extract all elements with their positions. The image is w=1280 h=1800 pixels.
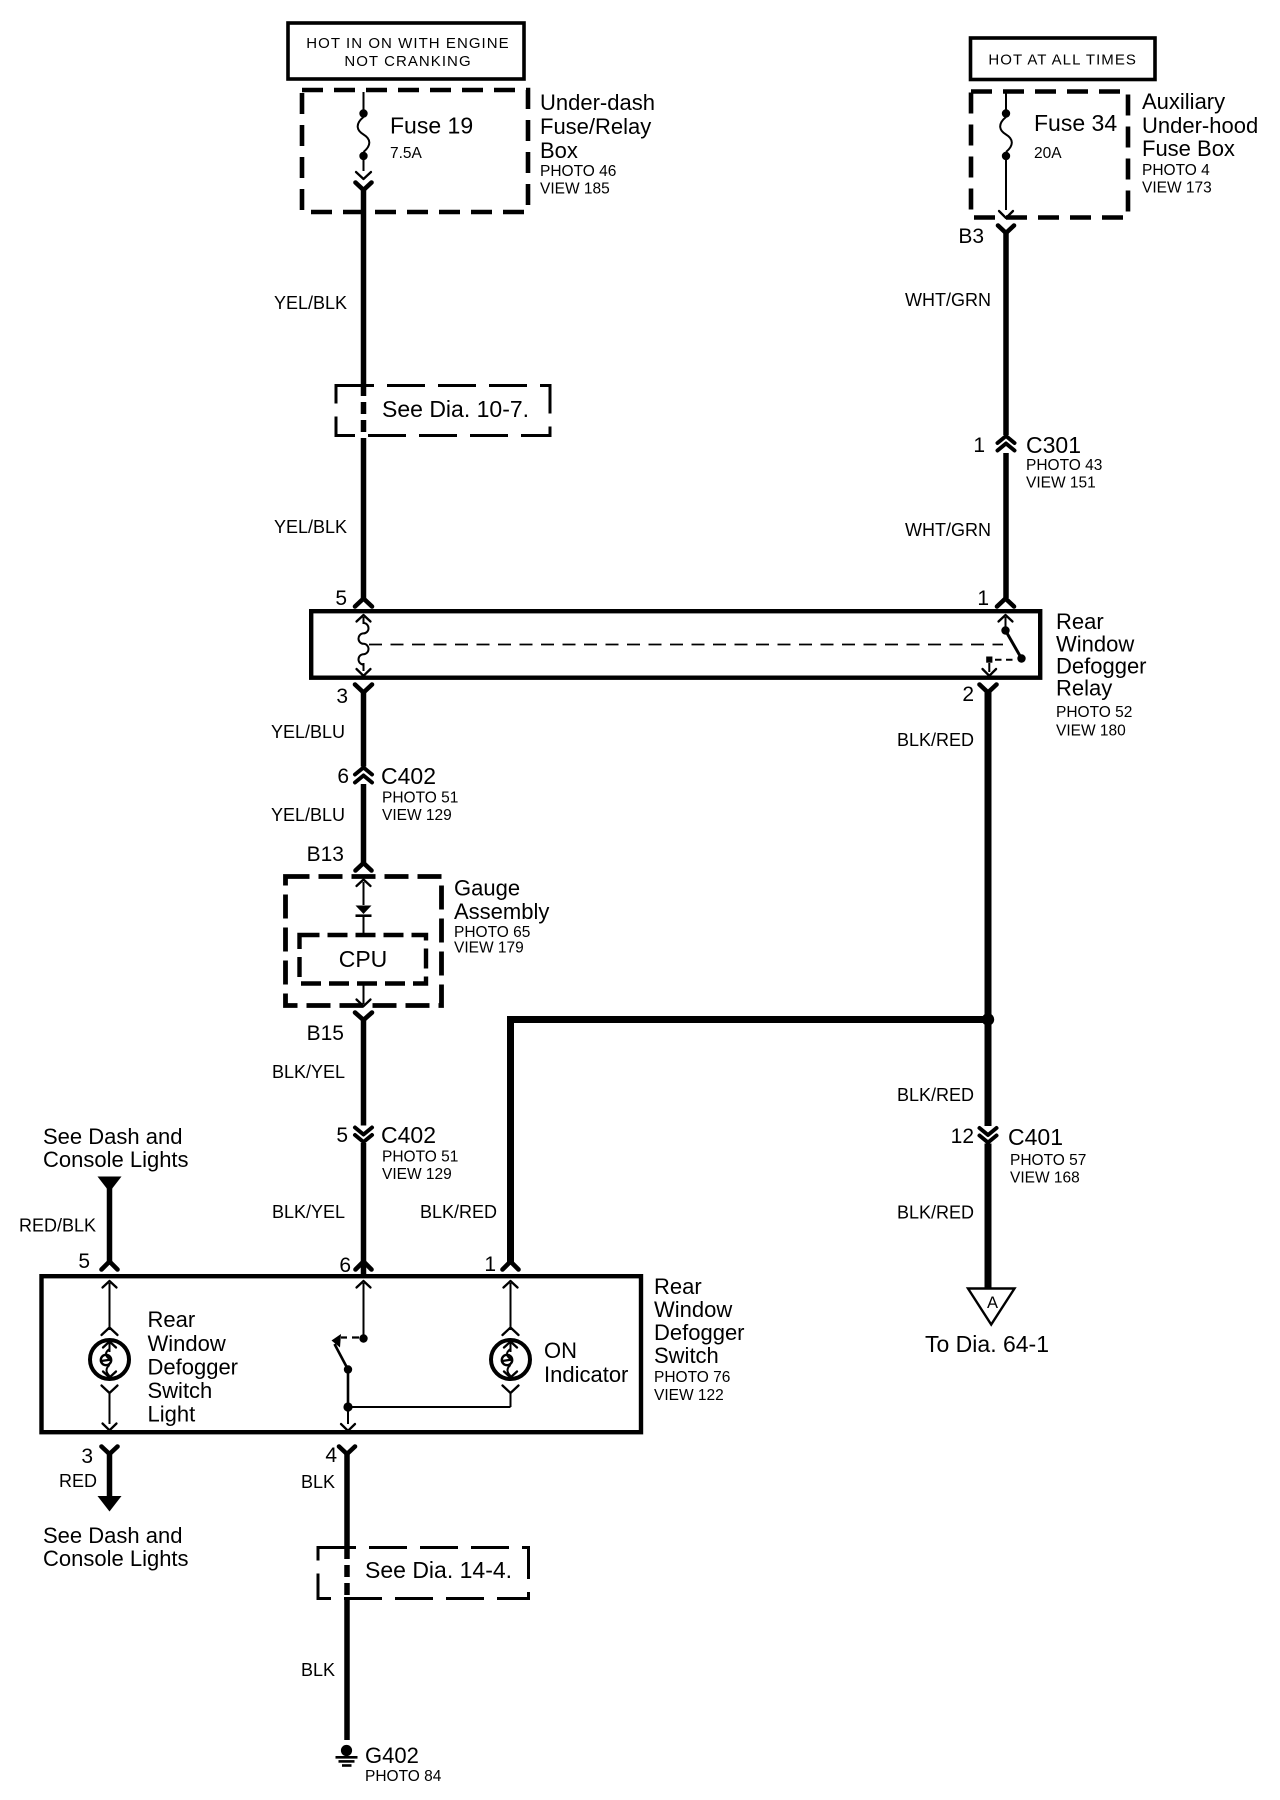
svg-text:PHOTO 57: PHOTO 57 xyxy=(1010,1152,1086,1169)
wire YEL/BLK (See Dia. 10-7. to relay pin 5) xyxy=(361,440,367,598)
svg-text:5: 5 xyxy=(335,587,347,610)
wire label WHT/GRN (upper) xyxy=(905,290,991,310)
relay switch contacts xyxy=(983,615,1026,676)
svg-text:See Dash and: See Dash and xyxy=(43,1523,182,1548)
svg-text:Indicator: Indicator xyxy=(544,1362,628,1387)
pin 5 connector flare (switch) xyxy=(102,1262,118,1270)
CPU box (dashed) xyxy=(300,935,427,984)
wire BLK/RED (relay pin 2 to junction) xyxy=(985,690,992,1020)
svg-text:YEL/BLU: YEL/BLU xyxy=(271,722,345,742)
svg-text:BLK/YEL: BLK/YEL xyxy=(272,1202,345,1222)
reference box: See Dia. 10-7. xyxy=(336,386,550,436)
switch light lamp L1 (Rear Window Defogger Switch Light) xyxy=(90,1281,129,1430)
svg-text:Window: Window xyxy=(654,1297,732,1322)
wire label BLK/RED (right lower) xyxy=(897,1203,974,1223)
power source label: HOT AT ALL TIMES xyxy=(971,38,1156,80)
wire label BLK (lower) xyxy=(301,1660,335,1680)
gauge assembly box (dashed enclosure) xyxy=(286,877,442,1006)
reference: See Dash and Console Lights (lower) xyxy=(43,1523,189,1571)
connector C401 (pin 12) xyxy=(951,1124,1087,1187)
svg-text:YEL/BLU: YEL/BLU xyxy=(271,805,345,825)
svg-text:BLK: BLK xyxy=(301,1660,335,1680)
svg-text:Rear: Rear xyxy=(1056,609,1104,634)
pin 5 label (switch) xyxy=(78,1250,90,1273)
rear window defogger switch box xyxy=(42,1276,642,1432)
wire label BLK (upper) xyxy=(301,1472,335,1492)
svg-text:Light: Light xyxy=(148,1402,196,1427)
pin 6 label (switch) xyxy=(339,1254,351,1277)
wire label YEL/BLU (lower) xyxy=(271,805,345,825)
svg-text:HOT AT ALL TIMES: HOT AT ALL TIMES xyxy=(988,52,1137,69)
svg-text:BLK/RED: BLK/RED xyxy=(897,1203,974,1223)
wire label YEL/BLK (upper) xyxy=(274,293,347,313)
wire label WHT/GRN (lower) xyxy=(905,520,991,540)
fuse 19 value labels xyxy=(390,113,473,163)
svg-text:6: 6 xyxy=(339,1254,351,1277)
svg-text:C402: C402 xyxy=(381,763,436,789)
svg-text:7.5A: 7.5A xyxy=(390,145,423,162)
connector flare B13 xyxy=(356,863,372,871)
pin 2 label (relay) xyxy=(962,683,974,706)
svg-text:Console Lights: Console Lights xyxy=(43,1546,189,1571)
svg-text:Defogger: Defogger xyxy=(654,1320,745,1345)
node B15 label xyxy=(307,1022,344,1045)
wire label RED/BLK xyxy=(19,1216,96,1236)
pin 4 label (switch) xyxy=(325,1444,337,1467)
svg-text:Auxiliary: Auxiliary xyxy=(1142,89,1225,114)
pin 1 label (switch) xyxy=(484,1253,496,1276)
svg-text:Window: Window xyxy=(148,1331,226,1356)
auxiliary under-hood fuse box (dashed enclosure) xyxy=(971,92,1128,218)
switch S1 (defogger switch contacts) xyxy=(332,1281,371,1431)
wire BLK (See Dia. 14-4. to ground G402) xyxy=(344,1600,350,1740)
wire label YEL/BLK (lower) xyxy=(274,517,347,537)
wire BLK/YEL (C402 to switch pin 6) xyxy=(361,1143,367,1276)
wire RED (switch pin 3 to dash/console lights) xyxy=(98,1452,122,1512)
svg-text:VIEW 179: VIEW 179 xyxy=(454,940,524,957)
svg-text:VIEW 122: VIEW 122 xyxy=(654,1387,724,1404)
svg-text:Gauge: Gauge xyxy=(454,876,520,901)
wire (CPU to B15) xyxy=(357,984,371,1006)
svg-text:Console Lights: Console Lights xyxy=(43,1147,189,1172)
switch box inner caption xyxy=(148,1307,239,1427)
svg-text:4: 4 xyxy=(325,1444,337,1467)
svg-text:VIEW 180: VIEW 180 xyxy=(1056,723,1126,740)
svg-text:PHOTO 43: PHOTO 43 xyxy=(1026,457,1102,474)
svg-text:Switch: Switch xyxy=(654,1343,719,1368)
svg-text:ON: ON xyxy=(544,1338,577,1363)
wire WHT/GRN (C301 to relay pin 1) xyxy=(1003,453,1009,598)
svg-text:Fuse Box: Fuse Box xyxy=(1142,136,1235,161)
svg-text:CPU: CPU xyxy=(339,946,388,972)
wire (switch junction to ON indicator) xyxy=(348,1406,511,1408)
svg-text:5: 5 xyxy=(336,1124,348,1147)
pin 5 label (relay) xyxy=(335,587,347,610)
svg-text:Relay: Relay xyxy=(1056,676,1112,701)
svg-text:VIEW 151: VIEW 151 xyxy=(1026,475,1096,492)
svg-text:VIEW 129: VIEW 129 xyxy=(382,1166,452,1183)
svg-text:3: 3 xyxy=(336,685,348,708)
wire BLK/RED (junction to C401) xyxy=(985,1020,992,1127)
svg-text:Box: Box xyxy=(540,138,578,163)
svg-text:B15: B15 xyxy=(307,1022,344,1045)
svg-text:20A: 20A xyxy=(1034,145,1062,162)
svg-text:PHOTO 51: PHOTO 51 xyxy=(382,1149,458,1166)
pin 2 connector cup xyxy=(980,685,997,693)
junction node (BLK/RED splice) xyxy=(982,1013,994,1025)
svg-text:WHT/GRN: WHT/GRN xyxy=(905,290,991,310)
svg-text:A: A xyxy=(987,1294,998,1312)
fuse F19 symbol xyxy=(356,92,371,179)
svg-text:VIEW 129: VIEW 129 xyxy=(382,807,452,824)
svg-text:See Dia. 10-7.: See Dia. 10-7. xyxy=(382,396,529,422)
relay coil xyxy=(357,615,371,676)
pin 1 connector flare xyxy=(997,599,1014,607)
wire RED/BLK (to switch pin 5) xyxy=(107,1188,113,1262)
svg-text:BLK/RED: BLK/RED xyxy=(897,1085,974,1105)
gauge assembly caption xyxy=(454,876,549,957)
fuse 34 value labels xyxy=(1034,110,1117,162)
ON indicator caption xyxy=(544,1338,628,1387)
svg-text:3: 3 xyxy=(81,1445,93,1468)
pin 5 connector flare xyxy=(355,599,372,607)
wire WHT/GRN (B3 to C301) xyxy=(1003,231,1009,435)
pin 6 connector flare (switch) xyxy=(356,1262,372,1270)
wire label YEL/BLU (upper) xyxy=(271,722,345,742)
fuse F34 symbol xyxy=(999,94,1013,219)
wire YEL/BLK (fuse 19 to See Dia. 10-7.) xyxy=(361,188,367,384)
svg-text:VIEW 173: VIEW 173 xyxy=(1142,180,1212,197)
svg-text:Assembly: Assembly xyxy=(454,899,549,924)
svg-text:Fuse/Relay: Fuse/Relay xyxy=(540,114,651,139)
svg-text:WHT/GRN: WHT/GRN xyxy=(905,520,991,540)
connector C402 (pin 6) xyxy=(337,763,458,824)
wire (dashed through See Dia. 14-4. box) xyxy=(344,1547,350,1600)
svg-text:PHOTO 76: PHOTO 76 xyxy=(654,1369,730,1386)
relay caption xyxy=(1056,609,1147,740)
svg-text:PHOTO 4: PHOTO 4 xyxy=(1142,162,1210,179)
auxiliary fuse box caption xyxy=(1142,89,1258,197)
ON indicator lamp L2 xyxy=(491,1281,530,1407)
svg-text:YEL/BLK: YEL/BLK xyxy=(274,293,347,313)
svg-text:BLK/RED: BLK/RED xyxy=(420,1202,497,1222)
svg-text:12: 12 xyxy=(951,1125,974,1148)
wire label BLK/RED (right middle) xyxy=(897,1085,974,1105)
svg-text:PHOTO 84: PHOTO 84 xyxy=(365,1768,442,1785)
pin 1 label (relay) xyxy=(977,587,989,610)
pin 3 connector cup xyxy=(355,685,372,693)
wire YEL/BLU (relay pin 3 to C402) xyxy=(361,690,367,767)
ground G402 xyxy=(336,1743,442,1785)
svg-text:See Dia. 14-4.: See Dia. 14-4. xyxy=(365,1557,512,1583)
svg-text:To Dia. 64-1: To Dia. 64-1 xyxy=(925,1331,1049,1357)
svg-text:VIEW 168: VIEW 168 xyxy=(1010,1170,1080,1187)
wire label RED xyxy=(59,1471,97,1491)
svg-text:Rear: Rear xyxy=(148,1307,196,1332)
power source label: HOT IN ON WITH ENGINE NOT CRANKING xyxy=(288,23,524,79)
diode D (gauge assembly internal) xyxy=(356,880,372,934)
svg-text:VIEW 185: VIEW 185 xyxy=(540,181,610,198)
wire label BLK/YEL (upper) xyxy=(272,1062,345,1082)
svg-text:PHOTO 46: PHOTO 46 xyxy=(540,163,616,180)
svg-text:RED/BLK: RED/BLK xyxy=(19,1216,96,1236)
pin 3 label (relay) xyxy=(336,685,348,708)
svg-text:Rear: Rear xyxy=(654,1274,702,1299)
svg-text:HOT IN ON WITH ENGINE: HOT IN ON WITH ENGINE xyxy=(306,35,509,52)
pin 4 connector cup (switch) xyxy=(339,1447,355,1455)
pin 3 label (switch) xyxy=(81,1445,93,1468)
svg-text:See Dash and: See Dash and xyxy=(43,1124,182,1149)
arrow from dash/console lights feed xyxy=(98,1177,122,1193)
connector C301 (pin 1) xyxy=(973,432,1102,492)
under-dash box caption xyxy=(540,90,655,198)
under-dash fuse/relay box (dashed enclosure) xyxy=(302,90,528,212)
svg-text:1: 1 xyxy=(977,587,989,610)
svg-text:Under-hood: Under-hood xyxy=(1142,113,1258,138)
wire label BLK/RED (right upper) xyxy=(897,730,974,750)
wire BLK/RED (junction to switch pin 1, with corner) xyxy=(511,1020,989,1263)
svg-text:C401: C401 xyxy=(1008,1124,1063,1150)
svg-text:G402: G402 xyxy=(365,1743,419,1768)
node B13 label xyxy=(307,843,344,866)
svg-text:BLK/YEL: BLK/YEL xyxy=(272,1062,345,1082)
wire BLK/YEL (B15 to C402) xyxy=(361,1018,367,1126)
off-page connector A (triangle) xyxy=(968,1289,1015,1325)
svg-text:Switch: Switch xyxy=(148,1378,213,1403)
wire (dashed through See Dia. 10-7. box) xyxy=(361,384,367,440)
svg-text:1: 1 xyxy=(973,434,985,457)
svg-text:1: 1 xyxy=(484,1253,496,1276)
wire YEL/BLU (C402 to gauge assembly B13) xyxy=(361,784,367,863)
switch box caption (right side) xyxy=(654,1274,745,1404)
svg-text:NOT CRANKING: NOT CRANKING xyxy=(344,53,471,70)
svg-text:PHOTO 51: PHOTO 51 xyxy=(382,790,458,807)
svg-text:B3: B3 xyxy=(958,225,984,248)
svg-text:6: 6 xyxy=(337,765,349,788)
pin 3 connector cup (switch) xyxy=(102,1447,118,1455)
wire BLK (switch pin 4 to See Dia. 14-4.) xyxy=(344,1452,350,1547)
svg-text:Defogger: Defogger xyxy=(148,1355,239,1380)
svg-text:PHOTO 52: PHOTO 52 xyxy=(1056,704,1132,721)
svg-text:PHOTO 65: PHOTO 65 xyxy=(454,924,530,941)
node B3 label xyxy=(958,225,984,248)
wire label BLK/YEL (lower) xyxy=(272,1202,345,1222)
svg-text:C301: C301 xyxy=(1026,432,1081,458)
svg-text:C402: C402 xyxy=(381,1122,436,1148)
svg-text:YEL/BLK: YEL/BLK xyxy=(274,517,347,537)
connector cup B3 xyxy=(998,226,1014,234)
svg-text:RED: RED xyxy=(59,1471,97,1491)
svg-text:Under-dash: Under-dash xyxy=(540,90,655,115)
wire label BLK/RED (middle branch) xyxy=(420,1202,497,1222)
connector cup at top of YEL/BLK wire xyxy=(356,183,372,191)
svg-text:B13: B13 xyxy=(307,843,344,866)
reference box: See Dia. 14-4. xyxy=(318,1548,529,1599)
svg-text:2: 2 xyxy=(962,683,974,706)
svg-text:5: 5 xyxy=(78,1250,90,1273)
wire BLK/RED (C401 to off-page A) xyxy=(985,1144,992,1289)
relay box: Rear Window Defogger Relay xyxy=(311,611,1040,678)
svg-text:Fuse 34: Fuse 34 xyxy=(1034,110,1117,136)
svg-text:BLK: BLK xyxy=(301,1472,335,1492)
connector C402 (pin 5) xyxy=(336,1122,458,1183)
pin 1 connector flare (switch) xyxy=(503,1262,519,1270)
off-page reference: To Dia. 64-1 xyxy=(925,1331,1049,1357)
connector cup B15 xyxy=(355,1013,372,1021)
svg-text:Fuse 19: Fuse 19 xyxy=(390,113,473,139)
relay linkage (dashed) xyxy=(369,644,1003,646)
reference: See Dash and Console Lights (upper) xyxy=(43,1124,189,1172)
svg-text:BLK/RED: BLK/RED xyxy=(897,730,974,750)
